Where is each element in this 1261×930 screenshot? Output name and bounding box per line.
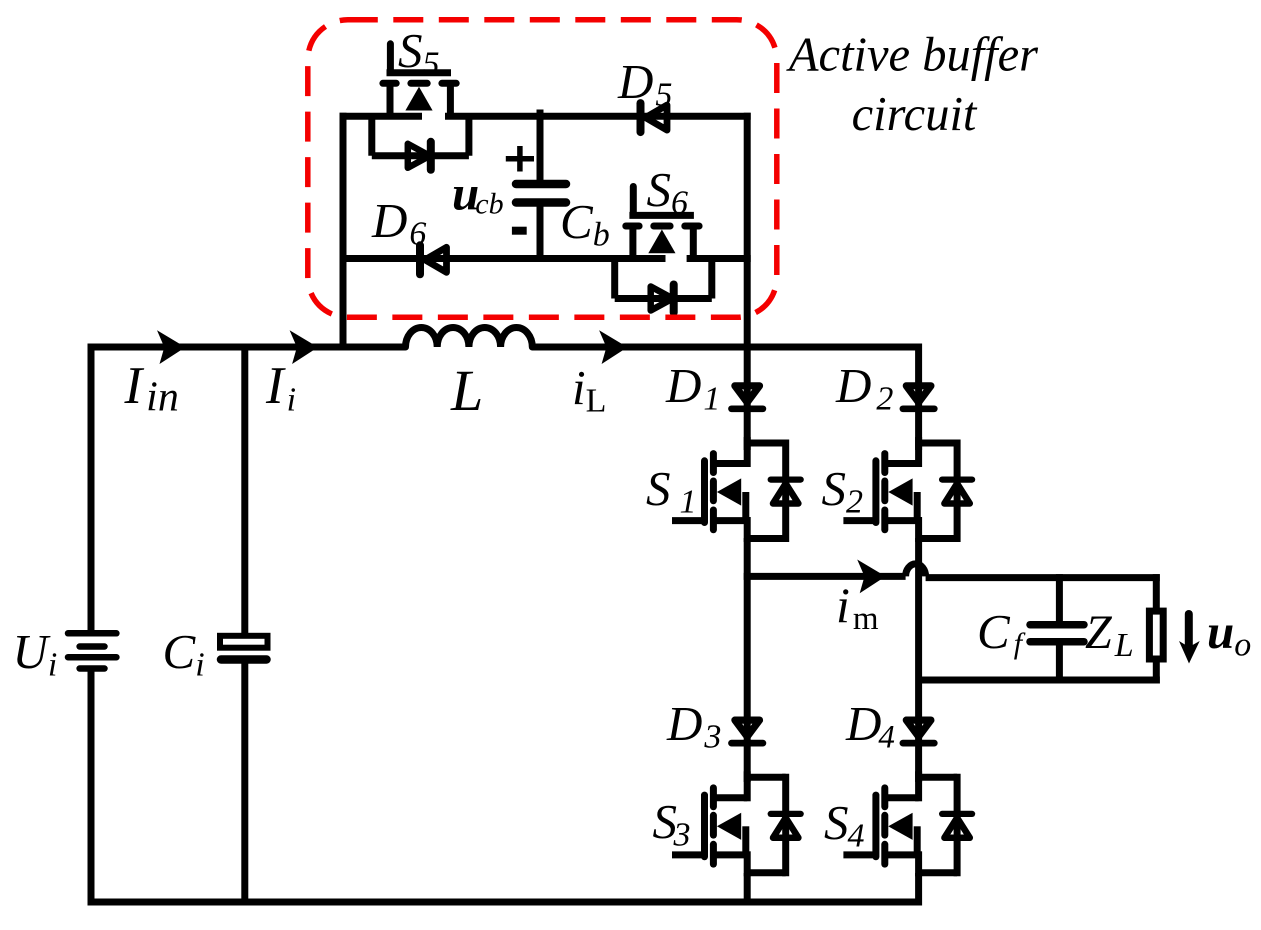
svg-text:ucb: ucb <box>452 166 504 221</box>
wire load bottom <box>919 677 1160 684</box>
resistor ZL (load box) <box>1149 611 1163 659</box>
svg-text:D4: D4 <box>845 696 895 756</box>
svg-text:S4: S4 <box>824 795 865 855</box>
wire buffer left vertical <box>340 113 347 351</box>
wire top to bridge <box>532 344 922 351</box>
arrow uo <box>1179 614 1200 664</box>
svg-text:Cb: Cb <box>560 194 610 254</box>
dashed red box: active buffer circuit <box>308 20 777 318</box>
diode D6 <box>420 245 447 274</box>
svg-text:D1: D1 <box>665 358 720 418</box>
wire top input <box>88 344 406 351</box>
svg-text:L: L <box>450 358 483 423</box>
diode D3 <box>732 720 763 743</box>
svg-text:im: im <box>836 577 879 637</box>
transistor S3 <box>672 771 801 876</box>
wire Cb bottom lead <box>537 206 544 263</box>
svg-text:Cf: Cf <box>977 604 1026 660</box>
diode D5 <box>641 103 668 132</box>
wire Cb top lead <box>537 110 544 182</box>
svg-text:Active buffer: Active buffer <box>786 29 1039 82</box>
inductor L <box>406 328 533 348</box>
transistor S6 <box>615 187 712 313</box>
wire midpoint im <box>744 573 906 580</box>
wire Ci branch lower <box>241 662 248 902</box>
svg-text:D2: D2 <box>835 358 893 418</box>
minus sign ucb <box>512 227 527 235</box>
svg-text:S3: S3 <box>653 794 691 854</box>
wire bridge right leg upper <box>915 344 922 451</box>
wire bridge right leg middle <box>915 538 922 782</box>
arrow iL <box>599 330 627 364</box>
wire load top <box>926 574 1160 581</box>
wire ZL top lead <box>1153 574 1160 611</box>
svg-text:Iin: Iin <box>124 357 179 421</box>
diode D2 <box>903 386 934 409</box>
wire left vertical lower <box>88 672 95 906</box>
transistor S4 <box>843 771 972 876</box>
wire Ci branch upper <box>241 347 248 634</box>
wire Cf top lead <box>1056 574 1063 624</box>
diode D1 <box>732 386 763 409</box>
svg-text:D5: D5 <box>617 54 672 114</box>
svg-text:Ii: Ii <box>265 357 296 419</box>
wire bridge left leg middle <box>744 538 751 782</box>
transistor S1 <box>672 437 801 542</box>
capacitor Ci <box>220 636 268 660</box>
svg-text:Ci: Ci <box>163 624 205 684</box>
svg-text:circuit: circuit <box>852 88 978 141</box>
capacitor Cb <box>516 184 566 203</box>
wire left vertical upper <box>88 344 95 631</box>
svg-text:iL: iL <box>572 360 606 420</box>
svg-text:S2: S2 <box>822 461 864 521</box>
wire buffer bottom rail right <box>687 255 751 262</box>
arrow im <box>857 560 885 594</box>
transistor S5 <box>372 44 469 170</box>
svg-text:D6: D6 <box>371 193 426 253</box>
wire bridge right leg lower <box>915 873 922 906</box>
battery Ui <box>68 633 116 668</box>
wire bridge left leg lower <box>744 873 751 906</box>
transistor S2 <box>843 437 972 542</box>
svg-text:S6: S6 <box>647 162 689 222</box>
arrow Ii <box>290 330 318 364</box>
svg-text:S1: S1 <box>646 461 697 521</box>
plus sign ucb <box>506 146 534 172</box>
svg-text:uo: uo <box>1207 604 1251 664</box>
wire ZL bottom lead <box>1153 659 1160 684</box>
arrow Iin <box>157 330 185 364</box>
wire buffer top rail left <box>340 113 423 120</box>
wire hop over right leg <box>906 564 926 577</box>
diode D4 <box>903 720 934 743</box>
wire bottom <box>88 899 922 906</box>
wire bridge left leg upper <box>744 344 751 451</box>
svg-text:ZL: ZL <box>1085 606 1134 664</box>
svg-text:D3: D3 <box>666 696 721 756</box>
wire buffer top rail right <box>445 113 751 120</box>
capacitor Cf <box>1030 625 1084 642</box>
wire buffer right vertical <box>744 113 751 351</box>
svg-text:Ui: Ui <box>13 624 58 684</box>
wire buffer bottom rail left <box>340 255 666 262</box>
svg-text:S5: S5 <box>398 23 440 83</box>
wire Cf bottom lead <box>1056 640 1063 684</box>
